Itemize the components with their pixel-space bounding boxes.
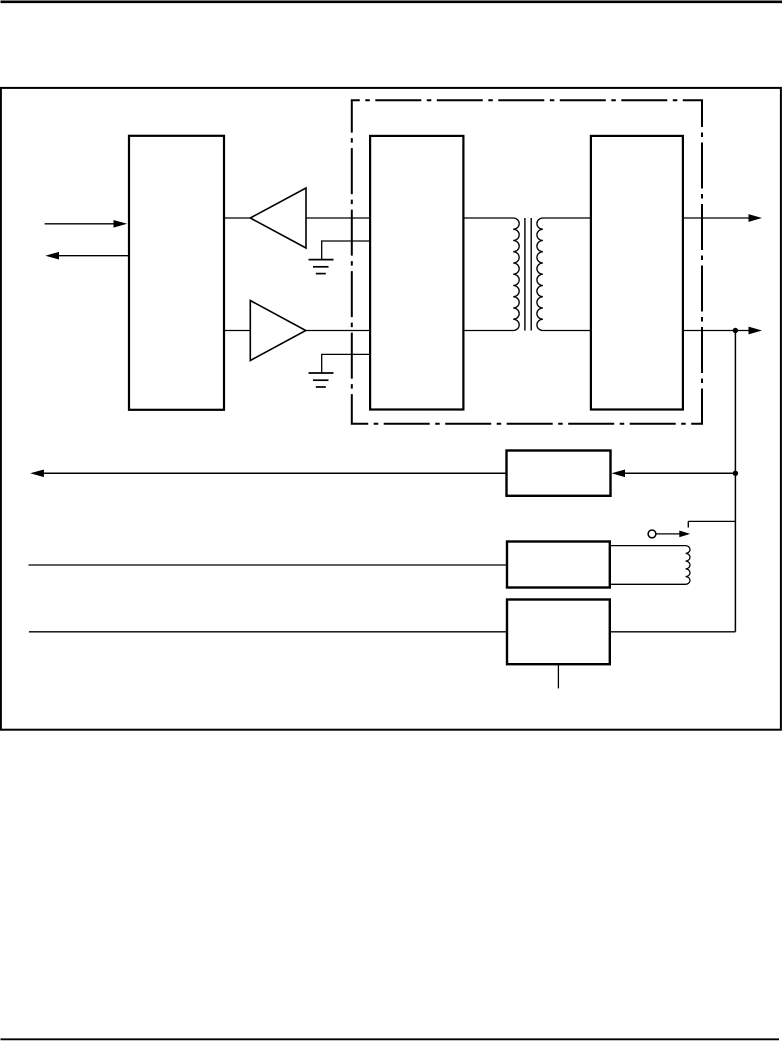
block U1 line-interface: [129, 136, 224, 410]
wire U1 to buffer A1: [224, 217, 250, 219]
switch S1 arm: [656, 533, 680, 535]
isolation barrier (dash-dot box): [352, 100, 702, 424]
wire input to U1: [45, 223, 115, 225]
wire input to U4: [29, 631, 507, 633]
wire IC2 output upper: [683, 217, 751, 219]
block U2: [507, 451, 611, 496]
wire IC2 output lower: [683, 330, 751, 332]
switch S1 pivot: [648, 530, 656, 538]
transformer T1 core: [524, 218, 526, 331]
wire vertical bus: [734, 331, 736, 632]
header rule: [1, 0, 782, 3]
figure frame: [1, 88, 781, 730]
junction node B: [733, 471, 738, 476]
arrow output upper: [749, 214, 763, 222]
wire U1 to buffer A2: [224, 330, 250, 332]
wire output from U1: [57, 255, 129, 257]
relay coil K1 with connecting wires: [610, 546, 690, 585]
buffer A1 (receive, points left): [250, 188, 306, 248]
buffer A2 (transmit, points right): [250, 301, 305, 361]
wire input to U3: [29, 564, 508, 566]
arrow out left: [45, 252, 59, 260]
arrow output lower: [749, 327, 763, 335]
block IC1 (isolator primary side): [370, 136, 463, 410]
ground GND1: [309, 260, 334, 274]
junction node A: [733, 328, 738, 333]
arrow switch arm: [679, 531, 690, 538]
block U3 (relay driver): [507, 542, 610, 588]
wire U2 output long left: [44, 472, 507, 474]
wire node B to block U2: [624, 472, 735, 474]
arrow into U2: [612, 469, 626, 477]
arrow into U1: [114, 220, 128, 228]
wire switch to bus: [688, 520, 735, 522]
wire U4 bottom stub: [557, 664, 559, 688]
transformer T1 primary winding: [463, 218, 519, 331]
wire ground 1: [322, 241, 370, 259]
wire A1 to isolator IC1: [306, 217, 370, 219]
switch S1 fixed contact: [687, 521, 689, 527]
block IC2 (isolator secondary side): [591, 136, 683, 410]
wire ground 2: [322, 354, 370, 372]
wire A2 to isolator IC1: [306, 330, 370, 332]
block U4: [507, 600, 610, 665]
wire U4 output to bus: [610, 631, 736, 633]
footer rule: [1, 1038, 780, 1040]
arrow out far left: [30, 469, 44, 477]
ground GND2: [309, 373, 334, 387]
transformer T1 secondary winding: [537, 218, 591, 331]
